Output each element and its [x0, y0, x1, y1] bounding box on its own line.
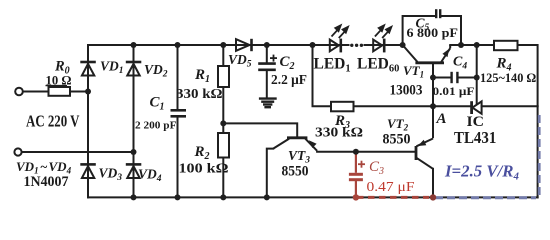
wire VT3 base from divider — [223, 123, 297, 137]
LED60 — [373, 39, 384, 53]
svg-text:TL431: TL431 — [454, 128, 496, 147]
wire TL431 anode to R4 corner — [482, 105, 538, 107]
wire bottom rail — [88, 196, 538, 198]
svg-text:R2: R2 — [194, 144, 210, 162]
transistor VT2 — [416, 139, 433, 169]
svg-text:0.47 μF: 0.47 μF — [367, 180, 415, 195]
ground under C2 — [259, 99, 277, 108]
node bridge right top — [131, 42, 137, 48]
svg-text:100 kΩ: 100 kΩ — [179, 162, 229, 177]
LED1 — [330, 39, 341, 53]
svg-text:AC 220 V: AC 220 V — [26, 111, 80, 130]
svg-text:8550: 8550 — [383, 131, 411, 147]
svg-text:6 800 pF: 6 800 pF — [407, 26, 459, 40]
wire C5 right lead — [441, 16, 461, 45]
svg-text:330 kΩ: 330 kΩ — [315, 125, 363, 140]
node C1 top — [175, 42, 181, 48]
diode VD5 — [236, 39, 252, 51]
svg-text:330 kΩ: 330 kΩ — [176, 87, 223, 102]
node dots top rail — [85, 42, 480, 200]
svg-text:I=2.5 V/R4: I=2.5 V/R4 — [444, 162, 519, 183]
transistor VT1 — [403, 45, 451, 63]
node A junction — [430, 103, 436, 109]
svg-text:8550: 8550 — [282, 163, 309, 179]
red dashed current path on bottom rail — [357, 196, 429, 199]
capacitor C3 (red) — [349, 152, 363, 198]
svg-text:R1: R1 — [194, 67, 210, 85]
resistor R4 — [494, 41, 518, 50]
wire C1 branch — [177, 45, 179, 110]
node C4 right — [474, 75, 480, 81]
svg-text:LED60: LED60 — [357, 56, 399, 75]
node VT1 collector — [400, 42, 406, 48]
label plus C3 (red) — [358, 161, 365, 168]
node bottom rail R2 — [220, 194, 226, 200]
blue dashed current path bottom — [435, 196, 536, 199]
svg-text:LED1: LED1 — [314, 56, 351, 75]
svg-text:1N4007: 1N4007 — [24, 174, 69, 190]
svg-text:VT1: VT1 — [403, 63, 424, 80]
svg-text:VD4: VD4 — [138, 167, 162, 185]
node C3 top — [353, 149, 359, 155]
TL431 IC symbol — [472, 101, 482, 114]
wire AC neutral to bridge — [22, 151, 134, 153]
node C5 right — [458, 42, 464, 48]
svg-text:A: A — [436, 111, 447, 127]
svg-text:VD2: VD2 — [144, 62, 168, 80]
node R1 top — [220, 42, 226, 48]
svg-text:~: ~ — [40, 159, 48, 174]
wire VT2 collector drop — [432, 169, 434, 198]
svg-text:0.01 μF: 0.01 μF — [433, 84, 475, 98]
node TL431 ref top — [474, 42, 480, 48]
wire VT1 base / node A vertical — [432, 64, 434, 137]
capacitor C5 — [436, 9, 440, 18]
wire LED branch drop to R3 row — [313, 45, 332, 106]
wire C2 to ground — [266, 70, 268, 97]
wire VT3 emitter to VT2 base — [317, 151, 415, 153]
node bottom rail bridge — [131, 194, 137, 200]
LED60 light arrows — [375, 25, 392, 38]
resistor R0 — [49, 87, 71, 96]
svg-text:13003: 13003 — [390, 83, 423, 99]
transistor VT1 emitter arrow — [442, 49, 449, 57]
resistor R3 — [331, 102, 354, 112]
svg-text:VD3: VD3 — [99, 166, 123, 184]
wire R3 to node A to TL431 — [354, 105, 471, 107]
wire C4 right lead — [458, 77, 477, 79]
node R1 R2 junction — [220, 120, 226, 126]
wire TL431 ref vertical — [476, 45, 478, 103]
transistor VT3 — [273, 138, 317, 151]
node C2 top — [264, 42, 270, 48]
node bottom rail C1 — [175, 194, 181, 200]
transistor VT2 emitter arrow — [418, 140, 427, 146]
blue dashed current path right vertical — [538, 114, 541, 195]
wire R4 return right vertical — [537, 106, 539, 197]
wire R1 R2 branch — [222, 45, 224, 197]
svg-text:C1: C1 — [150, 95, 165, 113]
svg-text:C3: C3 — [369, 159, 384, 177]
resistor R2 — [218, 133, 229, 158]
diode VD2 — [126, 62, 142, 76]
node LED branch — [310, 42, 316, 48]
svg-text:C2: C2 — [280, 54, 295, 72]
terminal AC input top — [15, 88, 23, 96]
transistor VT3 emitter arrow — [309, 140, 317, 148]
wire AC live to R0 — [23, 91, 49, 93]
node VT2 collector bottom (dark red) — [430, 194, 436, 200]
svg-text:2.2 μF: 2.2 μF — [271, 73, 307, 88]
node bottom rail VT3 collector — [264, 194, 270, 200]
diode VD1 — [80, 62, 96, 76]
wire R0 to bridge — [70, 91, 88, 93]
wire bridge left branch — [87, 45, 89, 197]
wire top rail after LED dots — [365, 44, 403, 46]
wire bridge right branch — [133, 45, 135, 197]
svg-text:VD5: VD5 — [228, 52, 252, 70]
terminal AC input bottom — [14, 148, 21, 155]
capacitor C4 — [452, 72, 458, 83]
underline below 10 ohm — [46, 85, 68, 87]
ellipsis dots in LED string — [350, 44, 363, 47]
wire VT3 collector to bottom rail — [267, 149, 273, 198]
node AC2 bridge junction — [131, 149, 137, 155]
wire R4 to right corner down — [518, 45, 538, 106]
wire C5 loop — [403, 16, 435, 45]
capacitor C2 — [258, 64, 276, 70]
svg-text:2 200 pF: 2 200 pF — [135, 119, 177, 131]
wire C4 left lead — [433, 77, 451, 79]
wire C1 bottom lead — [177, 117, 179, 198]
capacitor C1 — [171, 110, 187, 116]
svg-text:125~140 Ω: 125~140 Ω — [480, 71, 536, 85]
svg-text:C4: C4 — [453, 55, 467, 72]
resistor R1 — [218, 66, 229, 87]
node C3 bottom (red) — [353, 194, 359, 200]
svg-text:VD1: VD1 — [100, 58, 124, 76]
label plus C2 — [270, 55, 277, 62]
node C4 left — [430, 75, 436, 81]
wire top rail left section — [88, 44, 349, 46]
wire C2 top lead — [266, 45, 268, 63]
LED1 light arrows — [332, 25, 349, 38]
diode VD4 — [126, 164, 142, 178]
node R0 bridge junction — [85, 89, 91, 95]
diode VD3 — [80, 164, 96, 178]
svg-text:VT2: VT2 — [387, 116, 409, 133]
wire VT1 emitter rail — [450, 44, 494, 46]
